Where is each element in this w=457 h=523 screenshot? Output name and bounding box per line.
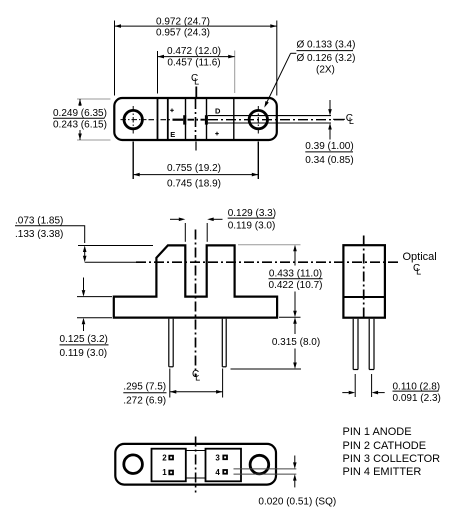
dimension 0.125: extension line at base top [77, 296, 112, 298]
svg-text:3: 3 [215, 453, 220, 462]
top view: left hole vertical crosshair centerline [132, 106, 134, 134]
svg-text:0.243 (6.15): 0.243 (6.15) [53, 120, 107, 131]
bottom view: right mounting hole [250, 455, 269, 474]
dimension 0.249: fraction bar [53, 117, 105, 119]
bottom view: left mounting hole [124, 455, 143, 474]
dimension 0.755 (19.2) / 0.745 (18.9): extension line left (hole centerline) [132, 142, 134, 180]
svg-text:0.957 (24.3): 0.957 (24.3) [156, 27, 210, 38]
dimension 0.129: left arrow [170, 218, 179, 220]
dimension .295: extension line right lead [222, 369, 224, 398]
svg-text:.295 (7.5): .295 (7.5) [123, 381, 166, 392]
bottom view: vertical centerline [195, 437, 197, 493]
svg-text:PIN 4 EMITTER: PIN 4 EMITTER [343, 466, 422, 478]
dimension 0.125 (3.2) / 0.119 (3.0): upper arrow [83, 278, 85, 291]
svg-text:PIN 2 CATHODE: PIN 2 CATHODE [343, 440, 427, 452]
top view: left aperture arm [173, 119, 184, 121]
dimension .073: extension line at tower top [78, 245, 153, 247]
front view: right lead (pin) [221, 319, 223, 367]
dimension 0.39: centerline stub and CL symbol [333, 118, 345, 120]
side view: front lead [352, 319, 354, 370]
svg-text:0.457 (11.6): 0.457 (11.6) [167, 58, 220, 69]
svg-text:L: L [349, 116, 354, 126]
bottom view: right lead frame window [206, 449, 242, 482]
svg-text:L: L [195, 372, 200, 382]
dimension .073: fraction bar [15, 225, 64, 227]
dimension 0.129: extension line left (slot left wall) [184, 223, 186, 242]
side view: body outline [343, 245, 385, 318]
dimension 0.972: dimension line with arrows [115, 25, 277, 27]
top view: emitter direction mark [170, 109, 174, 111]
dimension 0.129: fraction bar [228, 217, 275, 219]
dimension .295: fraction bar [123, 392, 166, 394]
dimension 0.110: extension line right [371, 374, 373, 397]
dimension 0.472: dimension line with arrows [158, 56, 235, 58]
dimension 0.433: fraction bar [269, 278, 323, 280]
svg-text:0.34 (0.85): 0.34 (0.85) [305, 155, 353, 166]
svg-text:1: 1 [162, 468, 167, 477]
top view: internal vertical line 1 [157, 99, 159, 139]
svg-text:0.472 (12.0): 0.472 (12.0) [167, 46, 221, 57]
front view: left lead (pin) [168, 319, 170, 367]
svg-text:.133 (3.38): .133 (3.38) [15, 229, 63, 240]
svg-text:0.433 (11.0): 0.433 (11.0) [269, 268, 322, 279]
dimension 0.755: dimension line with arrows [133, 174, 258, 176]
dimension 0.249 (6.35) / 0.243 (6.15): extension line top (gray) [77, 98, 111, 100]
dimension 0.020: lower arrow [294, 481, 296, 488]
dimension 0.125: extension line at base bottom [77, 317, 112, 319]
bottom view: package body outline [115, 444, 276, 485]
dimension 0.110: left arrow [342, 392, 349, 394]
dimension 0.125: lower arrow [83, 324, 85, 331]
front view: vertical part centerline [195, 230, 197, 378]
bottom view: left lead frame window [152, 449, 186, 482]
svg-text:0.39 (1.00): 0.39 (1.00) [305, 141, 353, 152]
svg-text:0.020 (0.51) (SQ): 0.020 (0.51) (SQ) [258, 497, 336, 508]
svg-text:0.119 (3.0): 0.119 (3.0) [60, 348, 108, 359]
top view: sensing slot projection upper line [208, 115, 331, 117]
top view: vertical centerline inside body [195, 99, 197, 139]
dimension 0.129: extension line right (slot right wall) [206, 223, 208, 242]
svg-text:2: 2 [162, 453, 167, 462]
svg-text:0.972 (24.7): 0.972 (24.7) [156, 17, 210, 28]
dimension .295: dimension line with arrows [170, 391, 223, 393]
svg-text:0.745 (18.9): 0.745 (18.9) [167, 179, 221, 190]
shared extension line at base bottom [279, 316, 301, 318]
top view: package body outline [114, 98, 276, 140]
top view: horizontal centerline through slot (thick dash-dot) [188, 119, 205, 121]
top view: right aperture notch bar [205, 115, 208, 124]
top view: detector direction mark [215, 133, 219, 135]
front view: slotted switch body outline [114, 245, 277, 317]
side view: vertical centerline [363, 236, 365, 321]
top view: internal vertical line 2 [167, 99, 169, 139]
dimension 0.433: lower arrow [294, 292, 296, 312]
top view: sensing slot projection lower line [208, 122, 331, 124]
side view: base parting line [343, 296, 385, 298]
svg-text:L: L [194, 76, 199, 86]
dimension 0.315 (8.0): upper arrow [293, 317, 297, 324]
svg-text:0.129 (3.3): 0.129 (3.3) [228, 208, 276, 219]
dimension 0.433 (11.0) / 0.422 (10.7): extension line at tower top (gray) [238, 244, 301, 246]
dimension 0.39 (1.00) / 0.34 (0.85): upper arrow [329, 100, 331, 109]
optical centerline (horizontal, spans front and side views) [136, 261, 401, 263]
dimension 0.972: extension line right [276, 21, 278, 96]
svg-text:(2X): (2X) [316, 65, 335, 76]
dimension 0.020: upper arrow [294, 456, 296, 463]
dimension 0.315: extension line at lead tips [231, 368, 302, 370]
top view: internal vertical line 5 [233, 99, 235, 139]
dimension 0.39: fraction bar [305, 151, 353, 153]
svg-text:PIN 3 COLLECTOR: PIN 3 COLLECTOR [343, 453, 441, 465]
dimension 0.129: right arrow [214, 218, 223, 220]
dimension .073: extension line at optical centerline [85, 261, 136, 263]
svg-text:.073 (1.85): .073 (1.85) [15, 216, 63, 227]
dimension 0.020 (0.51) (SQ): upper reference line [234, 468, 297, 470]
svg-text:0.249 (6.35): 0.249 (6.35) [53, 108, 107, 119]
svg-text:0.091 (2.3): 0.091 (2.3) [393, 393, 441, 404]
svg-text:Ø 0.126 (3.2): Ø 0.126 (3.2) [297, 53, 356, 64]
dimension 0.472: extension line right (gray) [234, 51, 236, 94]
svg-text:Ø 0.133 (3.4): Ø 0.133 (3.4) [297, 40, 356, 51]
svg-text:0.755 (19.2): 0.755 (19.2) [167, 163, 221, 174]
top view: left hole horizontal crosshair centerline [121, 119, 147, 121]
top view: horizontal centerline left section [149, 119, 173, 121]
dimension .073: double arrow between tower top and optical centerline [83, 246, 87, 253]
dimension 0.249: extension line bottom (gray) [77, 139, 111, 141]
dimension .295 (7.5) / .272 (6.9): extension line left lead [169, 369, 171, 398]
svg-text:0.125 (3.2): 0.125 (3.2) [60, 334, 108, 345]
svg-text:0.422 (10.7): 0.422 (10.7) [269, 280, 323, 291]
bottom view: bridge line top [186, 450, 206, 452]
dimension 0.472 (12.0) / 0.457 (11.6): extension line left [157, 51, 159, 94]
dimension 0.125: fraction bar [60, 344, 109, 346]
svg-text:Optical: Optical [403, 251, 437, 263]
svg-text:0.315 (8.0): 0.315 (8.0) [272, 337, 320, 348]
top view: right mounting hole [249, 110, 267, 128]
dimension 0.110: right arrow [378, 392, 385, 394]
dimension 0.110: fraction bar [393, 390, 439, 392]
svg-text:0.119 (3.0): 0.119 (3.0) [228, 220, 276, 231]
dimension 0.433: upper arrow [293, 245, 297, 252]
dimension 0.110 (2.8) / 0.091 (2.3): extension line left [354, 374, 356, 397]
hole diameter callout: leader line to right hole [291, 52, 297, 54]
dimension 0.020: lower reference line [234, 473, 297, 475]
svg-text:.272 (6.9): .272 (6.9) [123, 395, 166, 406]
bottom view: bridge line bottom [186, 477, 206, 479]
dimension 0.249: lower arrow [79, 130, 81, 140]
top view: internal vertical line 4 (detector section) [206, 99, 208, 139]
dimension 0.39: lower arrow [329, 129, 331, 139]
top view: right hole vertical crosshair centerline [257, 106, 259, 134]
dimension 0.972 (24.7) / 0.957 (24.3): extension line left [114, 21, 116, 96]
svg-text:D: D [215, 106, 221, 115]
dimension 0.315: lower arrow [294, 349, 296, 363]
dimension 0.755: extension line right (hole centerline) [257, 142, 259, 180]
dimension .073: leader [64, 226, 85, 243]
dimension 0.249: upper arrow [79, 99, 81, 106]
top view: left mounting hole [124, 110, 142, 128]
top view: horizontal centerline right section [208, 119, 344, 121]
hole diameter callout: fraction bar [297, 50, 354, 52]
side view: rear lead [368, 319, 370, 370]
top view: left aperture notch bar [183, 115, 186, 124]
svg-text:4: 4 [215, 468, 220, 477]
top view: vertical centerline below body [195, 142, 197, 151]
top view: internal vertical line 3 (emitter section) [185, 99, 187, 139]
svg-text:E: E [170, 130, 175, 139]
svg-text:PIN 1 ANODE: PIN 1 ANODE [343, 426, 412, 438]
svg-text:L: L [416, 267, 421, 277]
